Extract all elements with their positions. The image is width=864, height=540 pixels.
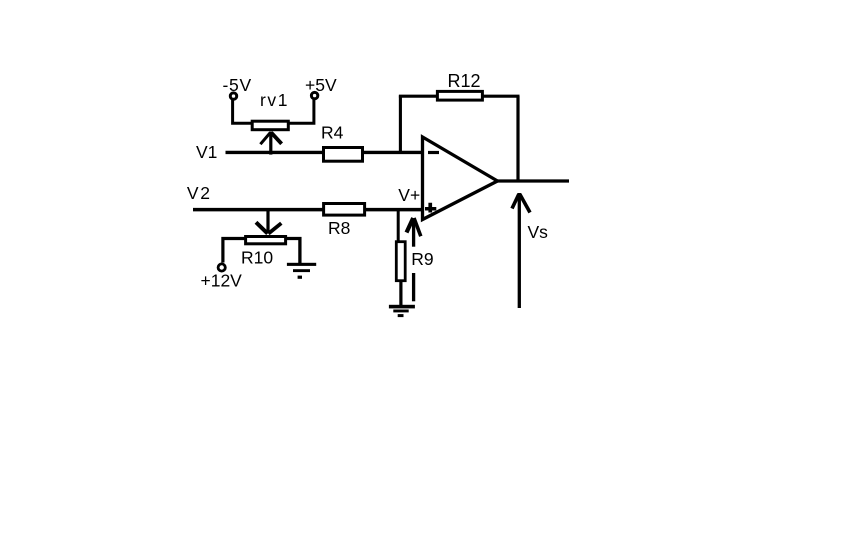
- wire feedback top: [399, 95, 520, 98]
- wire output: [497, 179, 570, 182]
- arrow V+ across R9: [407, 218, 421, 301]
- inverting input marker -: [428, 151, 439, 154]
- terminal -5V: [230, 93, 236, 99]
- svg-text:R8: R8: [328, 218, 350, 238]
- ground (below R9): [389, 305, 415, 317]
- resistor R9: [396, 242, 405, 281]
- wiper arrow R10: [256, 222, 281, 233]
- svg-text:V2: V2: [187, 183, 210, 203]
- wire feedback left leg: [399, 95, 402, 152]
- potentiometer R10: [246, 237, 286, 244]
- terminal +5V: [311, 92, 317, 98]
- wire +5V terminal to rv1 right: [289, 99, 314, 124]
- svg-text:R9: R9: [411, 249, 433, 269]
- arrow Vs: [512, 193, 530, 308]
- wire feedback right leg: [516, 96, 519, 181]
- resistor R4: [324, 148, 363, 162]
- wiper arrow rv1: [260, 132, 281, 155]
- svg-text:-5V: -5V: [223, 75, 252, 95]
- wire R9 to ground: [399, 281, 402, 305]
- wire R10 right lead to ground: [286, 239, 300, 264]
- op-amp U1: [423, 137, 498, 220]
- wire V1 input to inverting input: [226, 151, 422, 154]
- resistor R12: [437, 91, 482, 100]
- svg-text:R4: R4: [321, 122, 344, 142]
- svg-text:R12: R12: [448, 71, 481, 91]
- svg-text:V1: V1: [196, 142, 217, 162]
- wire V2 input to non-inverting input: [193, 208, 422, 212]
- wire V2 line down to R10 wiper: [266, 211, 269, 234]
- wire R10 left lead to +12V terminal: [223, 239, 245, 263]
- svg-text:rv1: rv1: [260, 90, 289, 110]
- svg-text:V+: V+: [398, 185, 420, 205]
- terminal +12V: [218, 264, 225, 271]
- svg-text:+5V: +5V: [305, 75, 337, 95]
- resistor R8: [324, 204, 365, 216]
- svg-text:+12V: +12V: [201, 270, 243, 290]
- potentiometer rv1: [252, 121, 288, 130]
- wire V2 line down to R9: [397, 211, 400, 241]
- ground (right of R10): [287, 263, 316, 279]
- svg-text:Vs: Vs: [528, 222, 549, 242]
- non-inverting input marker +: [425, 203, 436, 213]
- svg-text:R10: R10: [241, 247, 273, 267]
- wire -5V terminal to rv1 left: [233, 100, 252, 124]
